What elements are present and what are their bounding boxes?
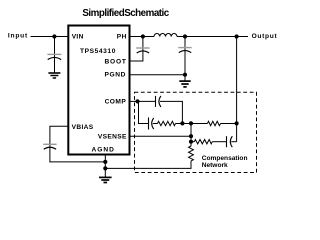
- ground PGND: [179, 81, 190, 87]
- capacitor boot: [136, 48, 149, 53]
- wire boot cap to BOOT pin: [129, 52, 143, 62]
- wire R4 bottom to agnd rail: [105, 161, 191, 169]
- compensation network dashed box: [135, 92, 257, 172]
- svg-text:COMP: COMP: [105, 98, 127, 105]
- node input junction: [52, 34, 56, 38]
- node COMP junction: [135, 99, 139, 103]
- wire row3 resistor to cap: [212, 141, 226, 143]
- IC U1 TPS54310: [68, 26, 129, 155]
- wire PGND node to ground: [184, 75, 186, 81]
- wire VBIAS cap to AGND: [50, 148, 105, 162]
- svg-text:PGND: PGND: [105, 72, 126, 79]
- node branch join: [180, 121, 184, 125]
- wire branch A to row2: [160, 101, 183, 123]
- capacitor comp branch B: [149, 118, 154, 130]
- wire PH node to boot cap: [142, 37, 144, 51]
- ground AGND: [99, 177, 112, 182]
- svg-text:PH: PH: [117, 34, 127, 41]
- wire row2 resistor to output line: [221, 123, 237, 125]
- wire feedback vertical: [190, 124, 192, 147]
- wire AGND pin down: [104, 155, 106, 177]
- wire VBIAS branch: [50, 126, 68, 147]
- wire comp node down to branch B: [139, 101, 149, 123]
- wire row2: [182, 123, 207, 125]
- wire output vertical: [236, 37, 238, 142]
- node PGND junction: [183, 73, 187, 77]
- svg-text:VBIAS: VBIAS: [72, 124, 94, 131]
- svg-text:VSENSE: VSENSE: [98, 133, 127, 140]
- inductor L1: [154, 33, 177, 36]
- wire input to VIN: [31, 36, 69, 38]
- wire PGND: [129, 74, 185, 76]
- wire PH to inductor: [129, 36, 154, 38]
- wire output node to cap: [184, 37, 186, 51]
- node inductor output junction: [183, 34, 187, 38]
- node row2 tee: [189, 121, 193, 125]
- node PH junction: [141, 34, 145, 38]
- node row3 junction: [189, 140, 193, 144]
- svg-text:Network: Network: [202, 162, 228, 169]
- node AGND left junction: [103, 160, 107, 164]
- wire input node to cap: [54, 37, 56, 58]
- wire branch B resistor to node: [176, 123, 183, 125]
- node output junction: [235, 34, 239, 38]
- capacitor VBIAS: [43, 144, 56, 149]
- resistor row3: [194, 140, 212, 144]
- resistor feedback lower R4: [189, 146, 194, 161]
- wire row3 to resistor: [191, 141, 194, 143]
- svg-text:SimplifiedSchematic: SimplifiedSchematic: [82, 8, 169, 19]
- wire branch B cap to resistor: [153, 123, 158, 125]
- wire inductor to output: [177, 36, 248, 38]
- svg-text:Input: Input: [8, 33, 28, 40]
- svg-text:Compensation: Compensation: [202, 155, 248, 162]
- node AGND rail junction: [103, 166, 107, 170]
- wire COMP pin: [129, 100, 138, 102]
- svg-text:BOOT: BOOT: [105, 59, 127, 66]
- capacitor input bypass: [47, 54, 61, 72]
- svg-text:AGND: AGND: [92, 147, 115, 154]
- resistor row2: [207, 121, 220, 125]
- ground input: [48, 73, 60, 78]
- svg-text:Output: Output: [252, 33, 278, 40]
- wire VSENSE: [129, 135, 191, 137]
- wire row3 cap to output line: [231, 141, 236, 143]
- capacitor output filter: [178, 48, 191, 75]
- resistor comp branch B: [158, 121, 176, 125]
- node VSENSE junction: [189, 134, 193, 138]
- capacitor comp branch A: [156, 96, 161, 107]
- svg-text:TPS54310: TPS54310: [80, 48, 116, 55]
- capacitor row3: [227, 136, 233, 147]
- wire comp branch A to cap: [138, 100, 156, 102]
- node row2 output junction: [235, 121, 239, 125]
- svg-text:VIN: VIN: [72, 34, 84, 41]
